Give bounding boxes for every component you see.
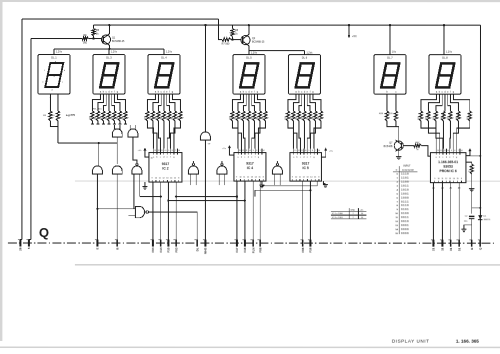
- connector pin 21: [433, 240, 435, 247]
- svg-text:13: 13: [166, 178, 168, 180]
- svg-text:13: 13: [306, 177, 308, 179]
- svg-text:12: 12: [440, 150, 442, 152]
- svg-text:12: 12: [303, 177, 305, 179]
- svg-text:0 1 1 0: 0 1 1 0: [401, 204, 409, 207]
- connector pin F15: [167, 239, 169, 246]
- supply +Vs IC2: [144, 149, 146, 153]
- svg-text:13: 13: [251, 177, 253, 179]
- svg-text:R12: R12: [156, 116, 158, 119]
- wire IC4 output to connector: [244, 181, 246, 239]
- connector pin F17: [236, 239, 238, 246]
- resistor R6 560: [82, 37, 89, 40]
- svg-text:11: 11: [441, 247, 445, 250]
- svg-text:A1 A2 A4 A8: A1 A2 A4 A8: [402, 169, 414, 172]
- svg-text:10: 10: [295, 177, 297, 179]
- svg-text:DISPLAY UNIT: DISPLAY UNIT: [392, 339, 430, 344]
- svg-text:0 1 0 0: 0 1 0 0: [401, 212, 409, 215]
- svg-text:Q: Q: [39, 225, 49, 240]
- svg-text:9: 9: [451, 150, 452, 152]
- svg-text:F06: F06: [301, 247, 305, 252]
- gate IC1d with output to pin: [112, 166, 122, 174]
- svg-text:+5C: +5C: [352, 34, 357, 38]
- svg-text:8: 8: [461, 178, 462, 180]
- wire base feed Q1: [31, 38, 82, 40]
- supply tap +5C: [348, 24, 350, 26]
- connector pin F04: [152, 239, 154, 246]
- svg-text:+Vs: +Vs: [360, 210, 364, 212]
- ground C2: [464, 225, 472, 229]
- svg-text:14: 14: [461, 150, 463, 152]
- svg-text:R45: R45: [448, 116, 450, 119]
- resistor R8 1k: [231, 29, 234, 37]
- svg-text:26: 26: [19, 247, 23, 251]
- svg-text:INPUT: INPUT: [403, 165, 411, 168]
- connector pin MHS: [205, 239, 207, 246]
- ground IC6: [469, 188, 474, 190]
- svg-text:1,2Vs: 1,2Vs: [111, 51, 118, 53]
- svg-text:DL: DL: [195, 247, 199, 251]
- svg-text:R15: R15: [117, 116, 119, 119]
- svg-text:BC546B-25: BC546B-25: [252, 41, 265, 44]
- bus wire: [176, 196, 237, 198]
- svg-text:12: 12: [242, 150, 244, 152]
- DL7 pins: [386, 94, 388, 97]
- svg-text:PROM IC 6: PROM IC 6: [439, 169, 456, 173]
- svg-text:9: 9: [434, 178, 435, 180]
- svg-text:R12: R12: [241, 116, 243, 119]
- svg-text:B: B: [470, 248, 474, 250]
- svg-text:13: 13: [437, 150, 439, 152]
- svg-text:R14: R14: [167, 116, 169, 119]
- svg-text:0 0 0 0: 0 0 0 0: [401, 232, 409, 235]
- DL1 pins: [49, 94, 51, 97]
- connector pin 11: [442, 240, 444, 247]
- wire gate input 1: [97, 208, 135, 210]
- supply IC6 pin: [469, 149, 471, 153]
- wire C2 branch to pin: [471, 225, 473, 240]
- IC U5 9317 decoder: [290, 153, 322, 182]
- resistor R58: [470, 164, 473, 174]
- connector pin 26: [20, 239, 22, 246]
- svg-text:14: 14: [318, 150, 320, 152]
- svg-text:R10: R10: [230, 116, 232, 119]
- wire C2 top to rail: [472, 207, 481, 209]
- svg-text:R16: R16: [263, 116, 265, 119]
- svg-text:IC 4: IC 4: [247, 166, 253, 170]
- connector pin F06: [302, 240, 304, 247]
- bus wire: [168, 200, 244, 202]
- resistor network DL8 R41-R47 + fan to IC6: [421, 97, 437, 111]
- wire IC2 output to connector: [167, 182, 169, 239]
- svg-text:a-g=770: a-g=770: [66, 114, 76, 117]
- display DL7: [374, 55, 406, 95]
- svg-text:12: 12: [162, 178, 164, 180]
- resistor R57 1k: [414, 144, 422, 147]
- svg-text:1 1 1 0: 1 1 1 0: [401, 173, 409, 176]
- svg-text:F18: F18: [243, 247, 247, 252]
- IC U2 9317 decoder: [149, 153, 182, 183]
- svg-text:IC 5: IC 5: [302, 166, 308, 170]
- svg-text:IC 2: IC 2: [162, 167, 168, 171]
- wire R6 to base: [88, 38, 102, 40]
- gate IC3d: [273, 166, 283, 174]
- svg-text:E: E: [96, 247, 100, 249]
- resistor network DL3 R9-R15: [92, 97, 100, 111]
- wire down to C2: [471, 174, 473, 214]
- svg-text:13: 13: [294, 150, 296, 152]
- wire second left vertical: [30, 39, 32, 240]
- svg-text:13: 13: [154, 150, 156, 152]
- wire R7 to base: [231, 39, 242, 41]
- wire Q1 collector: [108, 25, 110, 34]
- svg-text:11: 11: [299, 177, 301, 179]
- svg-text:11: 11: [444, 150, 446, 152]
- svg-text:R13: R13: [161, 116, 163, 119]
- wire IC6 pin 15 to right rail: [466, 155, 480, 157]
- connector pin 5: [28, 239, 30, 246]
- ground IC2: [144, 182, 146, 187]
- wire display drop: [53, 49, 55, 55]
- svg-text:7: 7: [175, 150, 176, 152]
- svg-text:R12: R12: [296, 116, 298, 119]
- svg-text:0 1 1 1: 0 1 1 1: [401, 200, 409, 203]
- svg-text:DL.4: DL.4: [161, 56, 167, 60]
- svg-text:c: c: [62, 82, 63, 84]
- svg-text:14: 14: [262, 150, 264, 152]
- svg-text:R42: R42: [426, 116, 428, 119]
- svg-text:9: 9: [236, 177, 237, 179]
- svg-text:R16: R16: [178, 116, 180, 119]
- svg-text:1.166.365-01: 1.166.365-01: [438, 160, 458, 164]
- svg-text:0 0 1 1: 0 0 1 1: [401, 216, 409, 219]
- svg-text:14: 14: [170, 178, 172, 180]
- resistor R5 1k: [92, 29, 95, 37]
- svg-text:10: 10: [438, 178, 440, 180]
- connector pin DL: [196, 239, 198, 246]
- svg-text:8: 8: [454, 150, 455, 152]
- wire top supply rail from pin 5: [22, 18, 218, 20]
- supply +Vs IC5: [325, 149, 327, 153]
- gate IC1c with output to pin: [93, 166, 103, 174]
- svg-text:9: 9: [168, 150, 169, 152]
- svg-text:31: 31: [449, 247, 453, 251]
- connector pin B: [471, 240, 473, 247]
- svg-text:10: 10: [239, 177, 241, 179]
- svg-text:F14: F14: [159, 247, 163, 252]
- wire IC5 output to connector: [302, 181, 304, 240]
- svg-text:IC.3 = 7401: IC.3 = 7401: [332, 217, 344, 219]
- svg-text:14: 14: [255, 177, 257, 179]
- wire left vertical to connector: [21, 19, 23, 239]
- svg-text:560: 560: [83, 42, 88, 45]
- svg-text:R47: R47: [467, 116, 469, 119]
- wire IC2 output to connector: [160, 182, 162, 240]
- resistor network DL6 + fan to IC5: [288, 97, 296, 111]
- transistor Q1: [101, 35, 110, 44]
- bus wire: [140, 196, 161, 198]
- svg-text:DL.3: DL.3: [106, 56, 112, 60]
- svg-text:10: 10: [164, 150, 166, 152]
- svg-text:12: 12: [247, 177, 249, 179]
- wire Q2 collector: [248, 25, 250, 34]
- svg-text:R13: R13: [106, 116, 108, 119]
- svg-text:10: 10: [447, 150, 449, 152]
- resistors R28 R29 under DL7: [386, 97, 388, 111]
- connector pin F03: [175, 239, 177, 246]
- svg-text:11: 11: [159, 178, 161, 180]
- svg-text:R46: R46: [456, 116, 458, 119]
- svg-text:R14: R14: [112, 116, 114, 119]
- svg-text:F08: F08: [258, 247, 262, 252]
- svg-text:R14: R14: [307, 116, 309, 119]
- wire IC6 output to connector: [450, 183, 452, 240]
- wire gate input 2: [134, 208, 135, 210]
- gate IC3e nand: [135, 206, 144, 217]
- svg-text:8: 8: [178, 178, 179, 180]
- svg-text:8: 8: [263, 177, 264, 179]
- gate IC3c: [217, 166, 227, 174]
- svg-text:1 0 0 0: 1 0 0 0: [401, 196, 409, 199]
- wire IC6 right pin: [466, 162, 472, 164]
- svg-text:1 1 0 1: 1 1 0 1: [401, 177, 409, 180]
- connector pin F16: [310, 240, 312, 247]
- wire IC2 output to connector: [175, 182, 177, 240]
- svg-text:12: 12: [298, 150, 300, 152]
- IC power table: [331, 210, 367, 212]
- svg-text:DL.8: DL.8: [442, 56, 448, 60]
- wire anode rail displays 4-5: [249, 49, 305, 51]
- display DL1: [38, 55, 70, 95]
- svg-text:DL.7: DL.7: [387, 56, 393, 60]
- svg-text:F15: F15: [166, 247, 170, 252]
- svg-text:R13: R13: [302, 116, 304, 119]
- connector pin F18: [244, 239, 246, 246]
- svg-text:1,2Vs: 1,2Vs: [166, 51, 173, 53]
- resistor R7 560: [222, 38, 231, 41]
- svg-text:9: 9: [152, 178, 153, 180]
- svg-text:R15: R15: [257, 116, 259, 119]
- svg-text:B: B: [115, 248, 119, 250]
- display DL6: [288, 55, 320, 95]
- svg-text:12: 12: [445, 178, 447, 180]
- svg-text:21: 21: [432, 247, 436, 251]
- svg-text:R43: R43: [433, 116, 435, 119]
- svg-text:14: 14: [453, 178, 455, 180]
- transistor Q7: [394, 141, 403, 150]
- svg-text:R10: R10: [285, 116, 287, 119]
- svg-text:R11: R11: [150, 116, 152, 119]
- wire IC4 output to connector: [236, 181, 238, 240]
- ground Q7 emitter: [398, 150, 400, 156]
- connector pin 51: [458, 240, 460, 247]
- svg-text:1,2Vs: 1,2Vs: [56, 51, 63, 53]
- svg-text:BC546B-25: BC546B-25: [112, 40, 125, 43]
- svg-text:10: 10: [304, 150, 306, 152]
- wire Q1 emitter: [108, 45, 110, 49]
- svg-text:9: 9: [292, 177, 293, 179]
- svg-text:R11: R11: [291, 116, 293, 119]
- supply +Vs IC4: [228, 146, 230, 150]
- wire IC2 output to connector: [152, 182, 154, 240]
- wire y143: [58, 142, 99, 144]
- svg-text:8: 8: [172, 150, 173, 152]
- gate IC3b: [189, 166, 199, 174]
- bus wire: [255, 190, 311, 196]
- IC U6 PROM: [430, 153, 466, 183]
- connector pin 31: [450, 240, 452, 247]
- wire IC4 output to connector: [252, 181, 254, 239]
- svg-text:51: 51: [457, 247, 461, 251]
- svg-text:R41: R41: [418, 116, 420, 119]
- svg-text:R10: R10: [90, 116, 92, 119]
- svg-text:14: 14: [310, 177, 312, 179]
- bus wire IC5-IC4: [262, 181, 317, 186]
- display DL5: [233, 55, 265, 95]
- svg-text:R44: R44: [441, 116, 443, 119]
- svg-text:F16: F16: [309, 247, 313, 252]
- display DL3: [93, 55, 125, 95]
- svg-text:DL.6: DL.6: [302, 56, 308, 60]
- gate IC1b upper: [128, 129, 138, 137]
- svg-text:13: 13: [449, 178, 451, 180]
- svg-text:R12: R12: [101, 116, 103, 119]
- connector dash-dot line: [8, 242, 495, 244]
- resistor network DL5 + fan to IC4: [232, 97, 240, 111]
- svg-text:0 1 0 1: 0 1 0 1: [401, 208, 409, 211]
- svg-text:8: 8: [318, 177, 319, 179]
- connector pin F08: [259, 239, 261, 246]
- wire to IC6 pin 13: [421, 146, 430, 157]
- svg-text:11: 11: [243, 177, 245, 179]
- display DL8: [429, 55, 461, 95]
- svg-text:14: 14: [178, 150, 180, 152]
- svg-text:R11: R11: [235, 116, 237, 119]
- svg-text:1 0 1 1: 1 0 1 1: [401, 185, 409, 188]
- gate TP with long verticals: [201, 132, 211, 140]
- wire drop DL7: [389, 24, 391, 26]
- svg-text:13: 13: [239, 150, 241, 152]
- svg-text:11: 11: [441, 178, 443, 180]
- svg-text:0 0 0 1: 0 0 0 1: [401, 224, 409, 227]
- svg-text:1 0 1 0: 1 0 1 0: [401, 189, 409, 192]
- wire display drops: [248, 50, 250, 54]
- svg-text:FLN: FLN: [251, 248, 255, 254]
- svg-text:7: 7: [458, 150, 459, 152]
- connector pin Q: [479, 240, 481, 247]
- svg-text:R11: R11: [95, 116, 97, 119]
- wire Q2 emitter: [248, 46, 250, 51]
- transistor Q2: [241, 35, 250, 44]
- svg-text:1N4151: 1N4151: [483, 219, 491, 221]
- svg-text:R15: R15: [172, 116, 174, 119]
- svg-text:9: 9: [308, 150, 309, 152]
- svg-text:15: 15: [314, 177, 316, 179]
- svg-text:IC.1 = 7400: IC.1 = 7400: [332, 213, 344, 215]
- svg-text:15: 15: [457, 178, 459, 180]
- svg-text:BC546B: BC546B: [384, 145, 393, 148]
- connector pin FLN: [252, 239, 254, 246]
- wire base: [403, 145, 414, 147]
- svg-text:11: 11: [161, 150, 163, 152]
- svg-text:11: 11: [246, 150, 248, 152]
- wire IC4 output to connector: [259, 181, 261, 239]
- svg-text:15: 15: [174, 178, 176, 180]
- svg-text:10: 10: [249, 150, 251, 152]
- resistors R3 R4 under DL1: [49, 97, 51, 111]
- svg-text:1,2Vs: 1,2Vs: [446, 51, 453, 53]
- ground IC5: [323, 181, 325, 184]
- svg-text:GND: GND: [350, 210, 355, 212]
- wire IC5 output to connector: [309, 181, 311, 240]
- svg-text:7: 7: [315, 150, 316, 152]
- svg-text:0 0 0 0: 0 0 0 0: [401, 228, 409, 231]
- svg-text:8: 8: [256, 150, 257, 152]
- wire right vertical: [479, 25, 481, 239]
- svg-text:R7 560: R7 560: [222, 43, 230, 46]
- svg-text:DL.1: DL.1: [51, 56, 57, 60]
- gate IC1a upper: [112, 129, 122, 137]
- diode D1 1N4151: [478, 215, 482, 219]
- wire IC6 output to connector: [433, 183, 435, 240]
- wire IC6 output to connector: [442, 183, 444, 240]
- svg-text:R16: R16: [123, 116, 125, 119]
- wire ends: [20, 239, 22, 242]
- resistor network DL4 + fan to IC2: [147, 97, 155, 111]
- connector pin E: [97, 239, 99, 246]
- svg-text:R14: R14: [252, 116, 254, 119]
- connector pin B: [116, 239, 118, 246]
- svg-text:8: 8: [312, 150, 313, 152]
- svg-text:F04: F04: [151, 247, 155, 252]
- svg-text:F17: F17: [235, 247, 239, 252]
- svg-text:9: 9: [253, 150, 254, 152]
- svg-text:12: 12: [158, 150, 160, 152]
- ground IC4: [261, 181, 263, 185]
- wire drop to R7: [218, 19, 222, 40]
- svg-text:R10: R10: [145, 116, 147, 119]
- svg-text:10: 10: [155, 178, 157, 180]
- svg-text:MHS: MHS: [204, 248, 208, 254]
- wire +5V rail: [94, 24, 481, 26]
- capacitor C2 10n: [469, 215, 475, 217]
- svg-text:R9...R15: R9...R15: [93, 109, 102, 111]
- svg-text:7: 7: [260, 150, 261, 152]
- svg-text:R15: R15: [313, 116, 315, 119]
- svg-text:1. 166. 365: 1. 166. 365: [456, 339, 479, 344]
- svg-text:11: 11: [301, 150, 303, 152]
- wire IC6 output to connector: [458, 183, 460, 240]
- gate IC3a: [132, 166, 142, 174]
- svg-text:F03: F03: [174, 247, 178, 252]
- svg-text:DL.5: DL.5: [246, 56, 252, 60]
- wire anode rail displays 1-3: [54, 48, 164, 50]
- wire display drop: [163, 49, 165, 55]
- svg-text:1 0 0 1: 1 0 0 1: [401, 192, 409, 195]
- wire drop DL8: [443, 24, 445, 26]
- wire gate output to pin: [149, 212, 198, 240]
- svg-text:15: 15: [258, 177, 260, 179]
- svg-text:1 1 0 0: 1 1 0 0: [401, 181, 409, 184]
- IC U4 9317 decoder: [234, 153, 266, 182]
- svg-text:0 0 1 0: 0 0 1 0: [401, 220, 409, 223]
- display DL4: [148, 55, 180, 95]
- svg-text:R13: R13: [246, 116, 248, 119]
- connector pin F14: [160, 239, 162, 246]
- wire display drop DL3: [108, 49, 110, 55]
- svg-text:R16: R16: [318, 116, 320, 119]
